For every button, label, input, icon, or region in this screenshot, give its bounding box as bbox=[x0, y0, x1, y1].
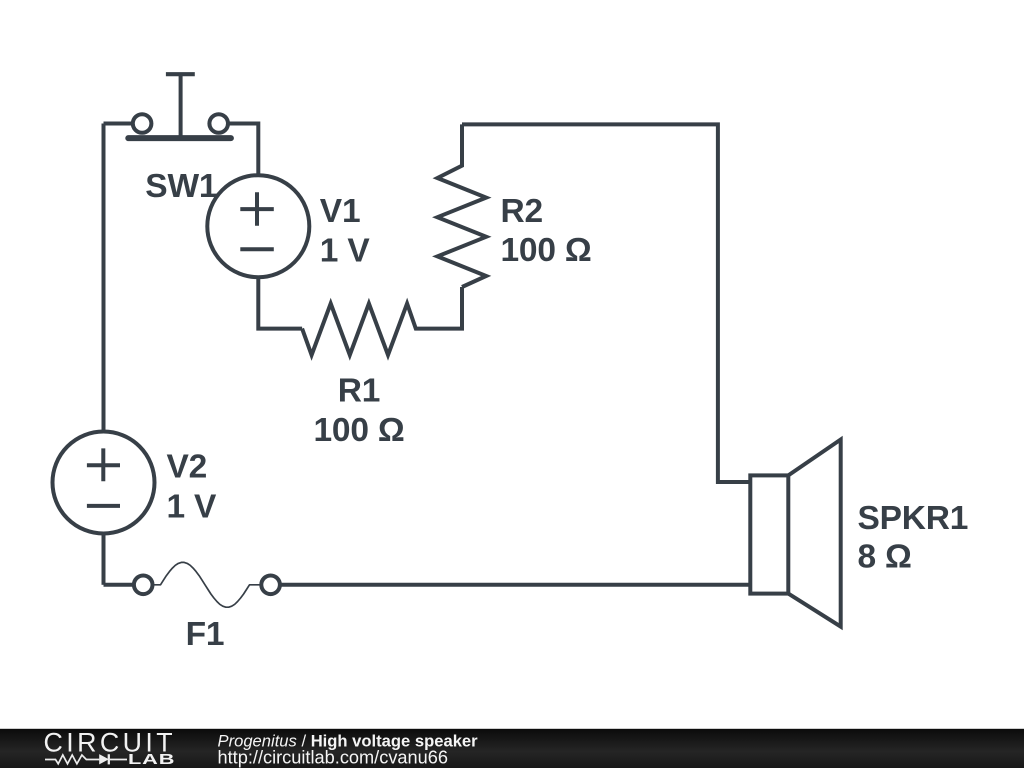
svg-text:R2: R2 bbox=[501, 193, 543, 230]
svg-text:SW1: SW1 bbox=[145, 168, 217, 205]
svg-text:1 V: 1 V bbox=[320, 232, 371, 269]
svg-text:100 Ω: 100 Ω bbox=[501, 232, 592, 269]
svg-text:100 Ω: 100 Ω bbox=[313, 412, 404, 449]
svg-text:SPKR1: SPKR1 bbox=[858, 500, 969, 537]
svg-text:http://circuitlab.com/cvanu66: http://circuitlab.com/cvanu66 bbox=[218, 747, 449, 767]
svg-text:V2: V2 bbox=[167, 449, 208, 486]
svg-text:R1: R1 bbox=[338, 373, 380, 410]
svg-text:8 Ω: 8 Ω bbox=[858, 538, 912, 575]
svg-text:F1: F1 bbox=[186, 616, 225, 653]
svg-text:V1: V1 bbox=[320, 193, 361, 230]
svg-text:1 V: 1 V bbox=[167, 488, 218, 525]
svg-text:LAB: LAB bbox=[128, 751, 175, 768]
